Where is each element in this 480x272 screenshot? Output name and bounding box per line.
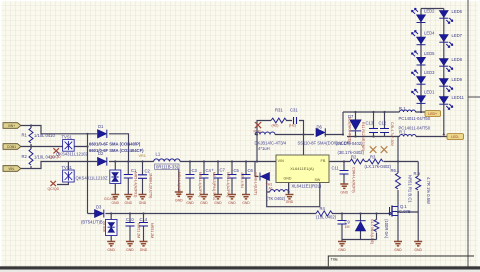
svg-text:TVS1: TVS1: [62, 135, 73, 140]
svg-text:QC/QD: QC/QD: [48, 187, 60, 191]
svg-text:(TK 0402): (TK 0402): [267, 196, 286, 201]
svg-text:6601/0-6F SMA (CO2404CF): 6601/0-6F SMA (CO2404CF): [89, 148, 144, 153]
svg-text:C.07B: C.07B: [399, 209, 411, 214]
svg-text:GND: GND: [126, 248, 134, 252]
svg-text:D1: D1: [98, 124, 104, 129]
svg-text:GND: GND: [140, 248, 148, 252]
svg-text:R6.1: R6.1: [391, 168, 401, 173]
svg-text:NR51 2M: NR51 2M: [137, 223, 141, 238]
svg-text:R3: R3: [370, 154, 376, 159]
svg-text:GND: GND: [228, 201, 236, 205]
svg-text:QKS4311L1210Z: QKS4311L1210Z: [76, 176, 108, 181]
svg-text:RTB: RTB: [254, 129, 262, 133]
svg-text:4.7R 1% 0.5W: 4.7R 1% 0.5W: [426, 177, 431, 204]
svg-text:(10L 0402): (10L 0402): [316, 215, 337, 220]
svg-text:4*1uH: 4*1uH: [258, 146, 270, 151]
svg-text:C14: C14: [140, 217, 148, 222]
svg-text:PC14011-04/T50: PC14011-04/T50: [399, 116, 431, 121]
svg-text:GND: GND: [125, 201, 133, 205]
svg-text:MA-L5(P94) 5.R4: MA-L5(P94) 5.R4: [212, 172, 216, 200]
svg-text:LED3: LED3: [424, 70, 435, 75]
svg-text:XL6411E1(A): XL6411E1(A): [290, 166, 314, 171]
svg-text:GND: GND: [112, 201, 120, 205]
svg-text:(H2): (H2): [272, 124, 279, 128]
svg-text:Title: Title: [331, 257, 339, 262]
svg-text:DKJB14/C-4T3/4: DKJB14/C-4T3/4: [255, 140, 287, 145]
svg-text:NR51 R1 B.C1: NR51 R1 B.C1: [408, 175, 413, 203]
svg-text:C3: C3: [192, 168, 198, 173]
svg-text:LED1: LED1: [424, 89, 435, 94]
svg-text:R31: R31: [275, 108, 283, 113]
svg-text:R1: R1: [22, 133, 28, 138]
svg-text:GND: GND: [200, 201, 208, 205]
svg-text:R.1: R.1: [399, 106, 406, 111]
svg-text:0R111B-33L: 0R111B-33L: [156, 164, 180, 169]
svg-text:4.R4 4 R4: 4.R4 4 R4: [240, 172, 244, 188]
svg-text:LED7: LED7: [452, 33, 463, 38]
svg-text:GND: GND: [107, 248, 115, 252]
svg-text:R4: R4: [320, 206, 326, 211]
svg-text:SW: SW: [315, 178, 321, 182]
svg-text:LED5: LED5: [424, 51, 435, 56]
svg-text:GND: GND: [242, 201, 250, 205]
svg-text:VR1: VR1: [139, 154, 146, 158]
svg-text:LED9: LED9: [452, 77, 463, 82]
svg-text:C9R4-L4(R2F9): C9R4-L4(R2F9): [352, 167, 356, 193]
svg-text:LED6: LED6: [452, 9, 463, 14]
svg-text:(100R 0A): (100R 0A): [384, 219, 389, 239]
svg-text:LED-: LED-: [451, 135, 459, 139]
svg-text:D7: D7: [348, 114, 354, 119]
svg-text:L1: L1: [156, 151, 161, 156]
svg-text:LED8: LED8: [452, 57, 463, 62]
svg-text:XL6411E1(R2L): XL6411E1(R2L): [292, 184, 322, 189]
svg-text:GND: GND: [394, 248, 402, 252]
svg-text:GND: GND: [286, 200, 294, 204]
svg-text:NR5-L4(A2F91): NR5-L4(A2F91): [226, 172, 230, 197]
svg-text:C6: C6: [248, 168, 254, 173]
svg-text:D3: D3: [96, 205, 102, 210]
svg-text:VIN-: VIN-: [8, 167, 14, 171]
svg-text:D6: D6: [317, 124, 323, 129]
svg-text:GND: GND: [341, 190, 349, 194]
svg-text:COM1: COM1: [7, 145, 16, 149]
svg-text:GND: GND: [175, 198, 183, 202]
svg-text:NR5-L4(A2F91): NR5-L4(A2F91): [134, 172, 138, 197]
svg-text:LED11: LED11: [452, 95, 465, 100]
svg-text:R.1: R.1: [399, 129, 406, 134]
svg-text:GND: GND: [338, 248, 346, 252]
svg-text:GND: GND: [414, 248, 422, 252]
svg-text:GND: GND: [186, 201, 194, 205]
svg-text:VIN: VIN: [278, 159, 285, 163]
svg-text:QC/QD: QC/QD: [49, 155, 61, 159]
svg-text:TVS1: TVS1: [62, 165, 73, 170]
svg-text:C7: C7: [220, 167, 226, 172]
svg-text:1/10L 0410: 1/10L 0410: [34, 133, 55, 138]
svg-text:(BT541/T)B: (BT541/T)B: [81, 220, 103, 225]
svg-text:6601/0-6F SMA (CON40/P): 6601/0-6F SMA (CON40/P): [89, 141, 141, 146]
svg-text:2M R0B: 2M R0B: [102, 221, 106, 232]
svg-text:GND: GND: [139, 201, 147, 205]
svg-text:C31: C31: [290, 108, 298, 113]
svg-text:R2: R2: [351, 154, 357, 159]
svg-text:C9: C9: [345, 219, 351, 224]
svg-text:A1: A1: [269, 186, 273, 190]
svg-text:C13: C13: [366, 120, 374, 125]
svg-text:C10: C10: [126, 217, 134, 222]
svg-text:NR51 2M: NR51 2M: [150, 223, 154, 238]
svg-text:(LX.17k-0402): (LX.17k-0402): [365, 164, 392, 169]
svg-text:NR5-L4(A2F91): NR5-L4(A2F91): [198, 172, 202, 197]
svg-text:GND: GND: [284, 177, 292, 181]
svg-text:R.5: R.5: [414, 171, 421, 176]
svg-text:12N8-L4(U2T): 12N8-L4(U2T): [254, 172, 258, 195]
svg-text:R2: R2: [22, 154, 28, 159]
svg-text:R11 R12 4R7(NR): R11 R12 4R7(NR): [361, 122, 365, 151]
svg-text:GND: GND: [214, 201, 222, 205]
svg-text:VIN+: VIN+: [8, 124, 15, 128]
svg-text:C5: C5: [234, 168, 240, 173]
svg-text:LED4: LED4: [424, 31, 435, 36]
svg-text:SL8(NRA4R2D): SL8(NRA4R2D): [348, 117, 352, 143]
svg-text:GL4 0N/A(LDE): GL4 0N/A(LDE): [370, 219, 374, 244]
svg-text:NR4-L4(A2F9): NR4-L4(A2F9): [177, 172, 181, 195]
svg-text:QKS4311L1210Z: QKS4311L1210Z: [56, 152, 88, 157]
svg-text:FB: FB: [321, 159, 326, 163]
svg-text:(H2): (H2): [289, 124, 296, 128]
svg-text:C/B-4.7uF-50V: C/B-4.7uF-50V: [390, 122, 394, 147]
svg-text:C11: C11: [332, 165, 340, 170]
svg-text:1NB8-L2(U2T9): 1NB8-L2(U2T9): [149, 173, 153, 198]
svg-text:1M: 1M: [345, 225, 350, 229]
svg-text:LED2: LED2: [424, 8, 435, 13]
svg-text:C12: C12: [379, 120, 387, 125]
